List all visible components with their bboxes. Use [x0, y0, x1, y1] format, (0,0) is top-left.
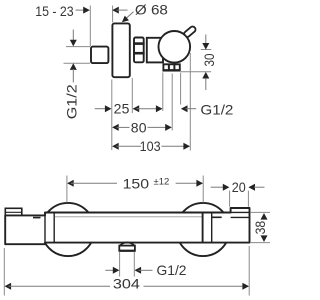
- shower hose outlet nut: [163, 64, 181, 71]
- outlet extension lines: [120, 252, 135, 277]
- mixer bar body: [5, 208, 249, 244]
- dim 80: [112, 119, 172, 135]
- escutcheon rosette: [112, 23, 129, 77]
- connection nut with ridges: [133, 38, 144, 63]
- dim 15-23: [35, 3, 127, 19]
- dim 20: [211, 179, 265, 207]
- extension line outlet left edge: [162, 73, 164, 112]
- svg-text:30: 30: [201, 53, 217, 66]
- extension line 304 right: [248, 246, 250, 296]
- extension line body axis right: [201, 49, 211, 51]
- svg-text:25: 25: [114, 101, 130, 117]
- extension line outlet centerline: [171, 74, 173, 131]
- label G1/2 right (hose outlet thread): [181, 102, 234, 118]
- extension line escutcheon face lower: [111, 80, 113, 151]
- svg-text:G1/2: G1/2: [157, 262, 187, 278]
- thermostat knob circle: [159, 31, 191, 63]
- svg-text:G1/2: G1/2: [64, 84, 80, 119]
- svg-text:Ø 68: Ø 68: [135, 2, 168, 18]
- svg-text:20: 20: [232, 179, 246, 195]
- outlet flange: [119, 246, 135, 251]
- svg-text:±12: ±12: [154, 177, 170, 188]
- extension line knob front: [189, 53, 191, 151]
- dim 30: [201, 35, 217, 91]
- extension lines right knob diameter: [251, 212, 270, 242]
- label diameter 68 with leader: [122, 2, 168, 23]
- dim 25: [95, 101, 163, 117]
- right handle joint lines: [203, 213, 222, 243]
- left union escutcheon circle: [41, 203, 94, 256]
- left handle joint lines: [33, 213, 54, 245]
- svg-text:103: 103: [140, 138, 161, 154]
- wall plate left: [5, 208, 22, 216]
- extension line 304 left: [3, 248, 5, 296]
- extension line escutcheon face top: [112, 6, 114, 23]
- wall line: [89, 6, 91, 47]
- extension lines from inlet square: [64, 47, 91, 64]
- valve body: [147, 38, 163, 63]
- dim 304: [5, 276, 250, 292]
- extension line nut face lower: [131, 78, 133, 113]
- svg-text:G1/2: G1/2: [200, 102, 233, 118]
- dim 38: [252, 213, 268, 242]
- inlet square fitting: [91, 47, 108, 64]
- control lever tab: [183, 25, 197, 38]
- dim 150 +-12: [67, 175, 203, 202]
- outlet dome below bar: [120, 242, 135, 245]
- right knob cap lines: [231, 212, 250, 217]
- svg-text:80: 80: [131, 119, 147, 135]
- dim G1/2 bottom (outlet thread): [105, 262, 186, 278]
- dim G1/2 left (inlet thread): [64, 30, 80, 120]
- svg-text:150: 150: [123, 175, 150, 191]
- dim 103: [112, 138, 190, 154]
- svg-text:38: 38: [252, 221, 268, 235]
- right union escutcheon circle: [176, 203, 229, 256]
- svg-text:15 - 23: 15 - 23: [35, 3, 74, 19]
- bar inner highlight line: [55, 216, 202, 218]
- svg-text:304: 304: [113, 276, 140, 292]
- extension line outlet right edge: [180, 73, 182, 105]
- extension line outlet bottom right: [181, 71, 211, 73]
